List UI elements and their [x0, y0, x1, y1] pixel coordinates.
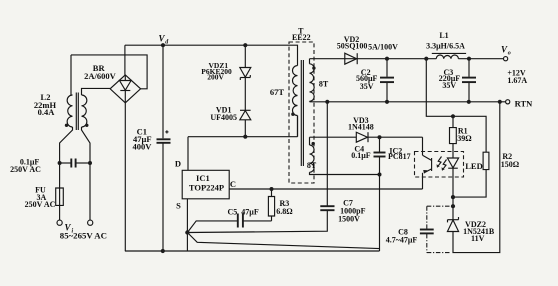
svg-text:3.3μH/6.5A: 3.3μH/6.5A: [426, 41, 465, 50]
svg-text:V: V: [64, 222, 71, 232]
svg-text:47μF: 47μF: [241, 207, 259, 216]
svg-text:C: C: [230, 179, 236, 189]
svg-text:11V: 11V: [471, 234, 485, 243]
svg-text:150Ω: 150Ω: [501, 160, 520, 169]
svg-text:C5: C5: [228, 207, 238, 216]
svg-text:EE22: EE22: [292, 33, 311, 42]
svg-text:UF4005: UF4005: [210, 113, 237, 122]
svg-text:1N4148: 1N4148: [348, 122, 374, 131]
svg-text:200V: 200V: [207, 72, 224, 81]
svg-text:400V: 400V: [133, 141, 153, 151]
svg-text:S: S: [176, 201, 181, 211]
svg-text:TOP224P: TOP224P: [189, 182, 224, 192]
svg-text:50SQ100: 50SQ100: [337, 41, 368, 50]
svg-text:D: D: [175, 159, 181, 169]
svg-text:250V AC: 250V AC: [25, 200, 56, 209]
svg-text:4.7~47μF: 4.7~47μF: [386, 235, 418, 244]
svg-text:1.67A: 1.67A: [507, 76, 527, 85]
svg-text:0.4A: 0.4A: [38, 107, 56, 117]
svg-text:6.8Ω: 6.8Ω: [276, 207, 293, 216]
svg-text:1500V: 1500V: [338, 215, 360, 224]
svg-text:PC817: PC817: [388, 152, 411, 161]
svg-text:8T: 8T: [307, 161, 317, 170]
svg-text:39Ω: 39Ω: [457, 134, 472, 143]
svg-text:250V AC: 250V AC: [10, 165, 41, 174]
svg-text:35V: 35V: [360, 82, 374, 91]
svg-text:67T: 67T: [270, 87, 285, 97]
svg-text:2A/600V: 2A/600V: [84, 71, 117, 81]
svg-text:o: o: [508, 50, 511, 56]
svg-text:5A/100V: 5A/100V: [368, 43, 398, 52]
svg-text:0.1μF: 0.1μF: [351, 151, 371, 160]
svg-text:35V: 35V: [442, 81, 456, 90]
svg-text:8T: 8T: [319, 80, 329, 89]
svg-text:RTN: RTN: [515, 99, 534, 109]
svg-text:LED: LED: [465, 161, 482, 171]
svg-text:L1: L1: [439, 31, 448, 40]
